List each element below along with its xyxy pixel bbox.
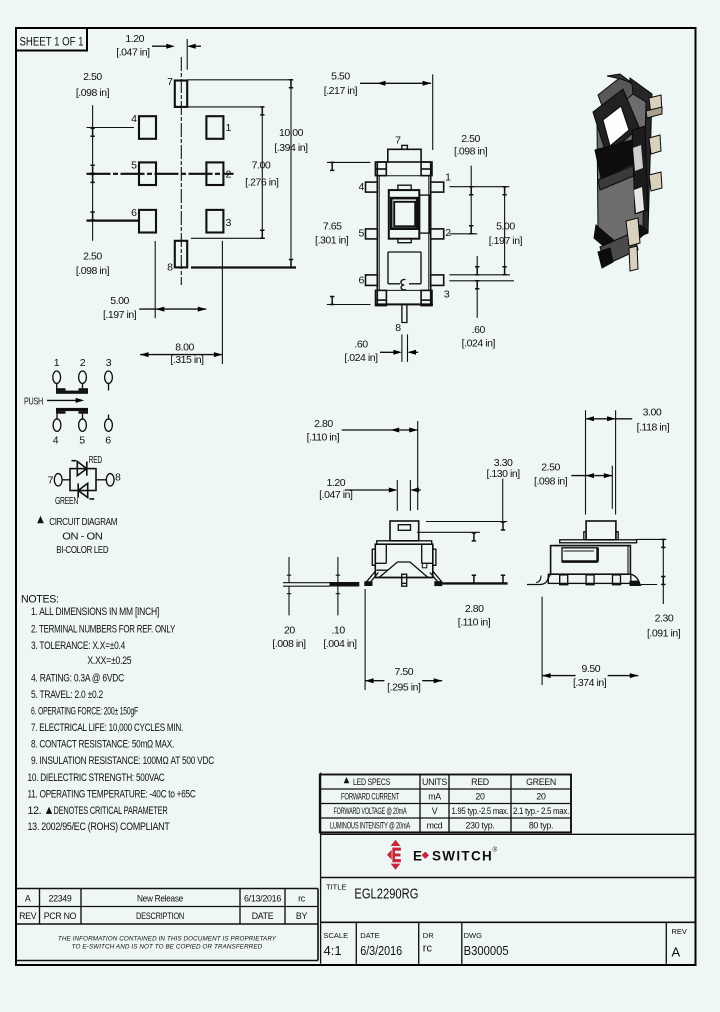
- svg-text:1.20: 1.20: [326, 477, 345, 489]
- svg-text:BY: BY: [296, 911, 308, 921]
- top view button mid square: [391, 198, 417, 229]
- circuit terminal 2: [79, 371, 87, 383]
- svg-text:[.047 in]: [.047 in]: [319, 489, 353, 501]
- svg-text:[.197 in]: [.197 in]: [489, 235, 523, 247]
- svg-text:[.098 in]: [.098 in]: [534, 476, 568, 488]
- side view button: [586, 521, 616, 540]
- svg-text:NOTES:: NOTES:: [21, 594, 59, 606]
- svg-text:BI-COLOR LED: BI-COLOR LED: [56, 544, 109, 556]
- svg-text:5.00: 5.00: [110, 295, 129, 307]
- svg-text:New Release: New Release: [137, 894, 183, 904]
- svg-text:rc: rc: [298, 894, 306, 904]
- front view reference line notch: [417, 531, 480, 533]
- top view button inner square: [394, 202, 415, 227]
- svg-text:SCALE: SCALE: [324, 931, 349, 940]
- svg-text:CIRCUIT DIAGRAM: CIRCUIT DIAGRAM: [49, 516, 117, 528]
- dimension 2.80 front top: [342, 421, 418, 510]
- svg-text:®: ®: [493, 846, 498, 854]
- front view left lead: [283, 571, 378, 587]
- svg-text:9. INSULATION RESISTANCE: 100M: 9. INSULATION RESISTANCE: 100MΩ AT 500 V…: [31, 755, 215, 767]
- svg-text:[.394 in]: [.394 in]: [274, 142, 308, 154]
- svg-text:[.110 in]: [.110 in]: [458, 617, 491, 629]
- svg-text:8.00: 8.00: [175, 341, 194, 353]
- svg-text:DENOTES CRITICAL PARAMETER: DENOTES CRITICAL PARAMETER: [54, 805, 168, 817]
- front view side steps: [375, 563, 433, 570]
- svg-text:7.50: 7.50: [394, 666, 413, 678]
- svg-text:2.50: 2.50: [83, 251, 102, 263]
- dimension 2.50 top view right: [449, 166, 509, 234]
- LED wires: [62, 479, 70, 481]
- dimension 7.65 top view: [327, 162, 371, 304]
- dimension 2.30 side: [637, 539, 667, 604]
- svg-text:[.008 in]: [.008 in]: [272, 638, 306, 650]
- front view side flanges: [372, 549, 375, 565]
- red diode: [72, 461, 87, 476]
- svg-text:[.197 in]: [.197 in]: [103, 309, 137, 321]
- svg-text:1: 1: [445, 172, 451, 184]
- svg-text:mcd: mcd: [427, 821, 443, 831]
- footprint pad 7: [175, 81, 187, 107]
- footprint vertical centerline: [180, 57, 182, 285]
- dimension 8.00 footprint: [140, 241, 222, 364]
- svg-text:[.301 in]: [.301 in]: [315, 235, 349, 247]
- LED specs table grid: [320, 775, 571, 833]
- svg-text:7.65: 7.65: [323, 220, 342, 232]
- svg-text:[.047 in]: [.047 in]: [116, 47, 150, 59]
- dimension 5.50 top view: [360, 74, 433, 150]
- dimension 3.00 side: [586, 410, 633, 514]
- top view corner pads: [375, 162, 432, 306]
- svg-text:5: 5: [79, 435, 85, 447]
- svg-text:GREEN: GREEN: [55, 495, 78, 507]
- svg-text:6/3/2016: 6/3/2016: [360, 943, 402, 958]
- svg-text:2: 2: [226, 168, 232, 180]
- svg-text:[.024 in]: [.024 in]: [462, 338, 496, 350]
- top view pin 7 tab: [402, 145, 408, 149]
- svg-text:8. CONTACT RESISTANCE: 50mΩ MA: 8. CONTACT RESISTANCE: 50mΩ MAX.: [31, 739, 174, 751]
- svg-text:ON - ON: ON - ON: [62, 530, 102, 542]
- svg-text:12.: 12.: [28, 805, 42, 817]
- svg-text:1.20: 1.20: [125, 33, 144, 45]
- svg-text:4: 4: [359, 181, 365, 193]
- footprint pad 8: [175, 241, 187, 268]
- front view reference line button top: [426, 521, 507, 523]
- svg-text:B300005: B300005: [464, 943, 509, 958]
- circuit caption: [37, 516, 44, 523]
- top view epsilon mark: [401, 279, 406, 289]
- side view cap: [560, 540, 637, 543]
- footprint pad 3: [206, 210, 223, 233]
- svg-text:7: 7: [167, 76, 173, 88]
- svg-text:[.091 in]: [.091 in]: [647, 628, 681, 640]
- svg-text:RED: RED: [89, 454, 103, 466]
- side view inner rect: [562, 548, 598, 562]
- svg-text:SWITCH: SWITCH: [432, 849, 493, 864]
- svg-text:RED: RED: [471, 777, 489, 787]
- top view pin 1: [431, 182, 444, 192]
- svg-text:6: 6: [131, 207, 137, 219]
- svg-text:1: 1: [54, 357, 60, 369]
- svg-text:[.374 in]: [.374 in]: [573, 677, 607, 689]
- svg-text:22349: 22349: [49, 894, 72, 904]
- circuit terminal 6: [105, 419, 113, 431]
- svg-text:7: 7: [395, 135, 401, 147]
- svg-text:DATE: DATE: [252, 911, 274, 921]
- svg-text:8: 8: [395, 322, 401, 334]
- svg-text:EGL2290RG: EGL2290RG: [354, 887, 418, 903]
- svg-text:2: 2: [445, 227, 451, 239]
- svg-text:THE INFORMATION CONTAINED IN T: THE INFORMATION CONTAINED IN THIS DOCUME…: [58, 936, 277, 943]
- footprint pad 5: [139, 162, 156, 185]
- svg-text:5. TRAVEL: 2.0 ±0.2: 5. TRAVEL: 2.0 ±0.2: [31, 689, 103, 701]
- svg-text:PCR NO: PCR NO: [44, 911, 77, 921]
- svg-text:5: 5: [131, 159, 137, 171]
- front view center tab: [402, 574, 407, 586]
- circuit terminal 4: [53, 419, 61, 431]
- svg-text:[.217 in]: [.217 in]: [324, 85, 358, 97]
- svg-text:UNITS: UNITS: [422, 777, 447, 787]
- svg-text:3: 3: [444, 289, 450, 301]
- svg-text:[.118 in]: [.118 in]: [637, 421, 670, 433]
- svg-text:GREEN: GREEN: [526, 777, 556, 787]
- circuit stems bottom: [57, 414, 109, 419]
- svg-text:2.30: 2.30: [655, 612, 674, 624]
- svg-text:8: 8: [167, 262, 173, 274]
- svg-text:[.130 in]: [.130 in]: [486, 468, 520, 480]
- dimension 2.80 front bottom: [472, 533, 476, 583]
- svg-text:[.315 in]: [.315 in]: [170, 354, 204, 366]
- svg-text:TO E-SWITCH AND IS NOT TO BE C: TO E-SWITCH AND IS NOT TO BE COPIED OR T…: [72, 944, 263, 951]
- svg-text:FORWARD CURRENT: FORWARD CURRENT: [341, 792, 400, 802]
- front view button notch: [398, 525, 410, 531]
- svg-text:2: 2: [80, 357, 86, 369]
- svg-text:5.00: 5.00: [496, 221, 515, 233]
- dimension 2.50 footprint upper: [90, 105, 94, 240]
- side view left lead hook: [527, 574, 551, 584]
- top view body outline: [375, 149, 433, 304]
- green diode: [78, 483, 94, 499]
- svg-text:10.00: 10.00: [279, 127, 304, 139]
- svg-text:[.295 in]: [.295 in]: [387, 682, 421, 694]
- circuit terminal 3: [105, 371, 113, 383]
- svg-text:LED SPECS: LED SPECS: [353, 777, 390, 787]
- svg-text:DR: DR: [423, 931, 434, 940]
- svg-text:FORWARD VOLTAGE @ 20mA: FORWARD VOLTAGE @ 20mA: [334, 806, 407, 816]
- footprint pad 4: [139, 116, 156, 139]
- top view pin 2: [431, 229, 444, 239]
- svg-text:3.00: 3.00: [643, 407, 662, 419]
- LED terminal 7: [54, 474, 62, 486]
- svg-text:1.95 typ.-2.5 max.: 1.95 typ.-2.5 max.: [452, 806, 509, 816]
- svg-text:.60: .60: [354, 339, 368, 351]
- dimension 10.00 footprint: [289, 80, 293, 268]
- svg-text:[.024 in]: [.024 in]: [344, 352, 378, 364]
- svg-text:E: E: [413, 849, 423, 864]
- top view pin 6: [366, 275, 378, 286]
- svg-text:REV: REV: [672, 927, 687, 936]
- circuit terminal 1: [53, 371, 61, 383]
- svg-text:4:1: 4:1: [324, 943, 342, 958]
- svg-text:[.098 in]: [.098 in]: [454, 146, 488, 158]
- svg-text:230 typ.: 230 typ.: [466, 821, 495, 831]
- footprint pad 1: [206, 116, 223, 139]
- svg-text:.60: .60: [472, 324, 486, 336]
- svg-text:5: 5: [359, 227, 365, 239]
- circuit movable contact bar upper: [56, 388, 88, 394]
- dimension 5.00 top view right: [502, 187, 506, 275]
- e-switch logo mark: [387, 840, 401, 870]
- top view pin 5: [366, 229, 378, 239]
- dimension 7.00 footprint: [260, 107, 264, 238]
- svg-text:20: 20: [284, 624, 295, 636]
- svg-text:2.50: 2.50: [461, 133, 480, 145]
- svg-text:13. 2002/95/EC (ROHS) COMPLIAN: 13. 2002/95/EC (ROHS) COMPLIANT: [28, 821, 171, 833]
- dimension .60 top view right: [449, 256, 514, 318]
- top view button outer: [389, 190, 420, 239]
- svg-text:2.50: 2.50: [83, 71, 102, 83]
- side view bottom band: [548, 574, 631, 583]
- front view button: [390, 521, 419, 541]
- sheet label box: [16, 28, 87, 51]
- dimension 2.50 side: [571, 466, 612, 509]
- top view pin 3: [431, 275, 444, 286]
- svg-text:4: 4: [53, 435, 59, 447]
- svg-text:3: 3: [106, 357, 112, 369]
- svg-text:11. OPERATING TEMPERATURE: -40: 11. OPERATING TEMPERATURE: -40C to +65C: [28, 788, 196, 800]
- footprint pad 6: [139, 210, 156, 233]
- title block frame lines: [321, 773, 696, 964]
- LED box: [70, 469, 96, 491]
- svg-text:[.098 in]: [.098 in]: [76, 87, 110, 99]
- top view button bottom tab: [398, 239, 411, 243]
- svg-text:7.00: 7.00: [252, 159, 271, 171]
- LED terminal 8: [106, 474, 114, 486]
- svg-text:[.110 in]: [.110 in]: [307, 432, 340, 444]
- svg-text:1: 1: [226, 122, 232, 134]
- svg-text:SHEET 1 OF 1: SHEET 1 OF 1: [20, 37, 84, 49]
- svg-text:DESCRIPTION: DESCRIPTION: [136, 911, 184, 921]
- svg-text:7: 7: [48, 475, 54, 487]
- svg-text:10. DIELECTRIC STRENGTH: 500V: 10. DIELECTRIC STRENGTH: 500VAC: [28, 772, 165, 784]
- dimension 2.50 footprint lower: [90, 174, 94, 220]
- front view body: [375, 544, 433, 577]
- footprint pad 2: [206, 162, 223, 185]
- top view pin 8 tab: [402, 304, 407, 322]
- dimension 7.50 front: [365, 589, 442, 690]
- dimension .20 pcb: [287, 557, 291, 615]
- svg-text:20: 20: [536, 792, 546, 802]
- front view right lead: [430, 571, 508, 587]
- svg-text:PUSH: PUSH: [24, 396, 43, 408]
- side view right lead: [631, 574, 640, 583]
- svg-text:[.098 in]: [.098 in]: [76, 265, 110, 277]
- svg-text:1. ALL DIMENSIONS IN MM [INCH]: 1. ALL DIMENSIONS IN MM [INCH]: [31, 606, 159, 618]
- svg-text:X.XX=±0.25: X.XX=±0.25: [87, 655, 131, 667]
- svg-text:3: 3: [226, 217, 232, 229]
- svg-text:LUMINOUS INTENSITY @ 20mA: LUMINOUS INTENSITY @ 20mA: [330, 821, 410, 831]
- side view body: [551, 546, 631, 575]
- footprint extension lines: [87, 80, 297, 268]
- svg-text:5.50: 5.50: [331, 70, 350, 82]
- front view actuator dome: [379, 562, 428, 578]
- svg-text:REV: REV: [19, 911, 37, 921]
- top view button right strip: [420, 195, 430, 233]
- top view pin 4: [366, 182, 378, 192]
- dimension 5.00 footprint: [139, 241, 206, 318]
- svg-text:DATE: DATE: [360, 931, 379, 940]
- revision table: [16, 889, 318, 961]
- circuit stems top: [57, 383, 109, 390]
- svg-text:6. OPERATING FORCE: 200± 150gF: 6. OPERATING FORCE: 200± 150gF: [31, 706, 139, 718]
- svg-text:20: 20: [475, 792, 485, 802]
- svg-text:[.004 in]: [.004 in]: [323, 638, 357, 650]
- dimension 1.20 footprint: [152, 39, 201, 70]
- dimension 3.30 front: [501, 479, 505, 584]
- svg-text:2.50: 2.50: [541, 462, 560, 474]
- svg-text:DWG: DWG: [464, 931, 482, 940]
- svg-text:2.80: 2.80: [465, 603, 484, 615]
- svg-text:8: 8: [115, 472, 121, 484]
- svg-text:80 typ.: 80 typ.: [529, 821, 553, 831]
- LED table header row: [344, 777, 350, 783]
- svg-text:mA: mA: [428, 792, 441, 802]
- front view cap: [377, 541, 432, 544]
- svg-text:TITLE: TITLE: [326, 883, 346, 892]
- circuit movable contact bar lower: [56, 408, 88, 414]
- dimension .10 pcb: [336, 557, 340, 615]
- svg-text:[.276 in]: [.276 in]: [245, 177, 279, 189]
- svg-text:rc: rc: [423, 943, 433, 955]
- svg-text:6: 6: [359, 275, 365, 287]
- svg-text:2.1 typ.- 2.5 max.: 2.1 typ.- 2.5 max.: [513, 806, 569, 816]
- footprint horizontal centerline: [87, 173, 234, 175]
- svg-text:3. TOLERANCE: X.X=±0.4: 3. TOLERANCE: X.X=±0.4: [31, 640, 125, 652]
- top view lower inner section: [388, 252, 421, 284]
- side view feet: [560, 575, 568, 585]
- 3D isometric switch rendering: [593, 74, 662, 271]
- front view inner verticals: [385, 544, 387, 563]
- svg-text:4. RATING: 0.3A @ 6VDC: 4. RATING: 0.3A @ 6VDC: [31, 673, 125, 685]
- svg-text:4: 4: [131, 113, 137, 125]
- dimension 9.50 side: [542, 597, 638, 685]
- svg-text:9.50: 9.50: [581, 663, 600, 675]
- svg-text:.10: .10: [331, 624, 345, 636]
- svg-text:V: V: [432, 806, 438, 816]
- svg-text:7. ELECTRICAL LIFE: 10,000 CYC: 7. ELECTRICAL LIFE: 10,000 CYCLES MIN.: [31, 722, 183, 734]
- svg-text:2.80: 2.80: [314, 418, 333, 430]
- svg-text:A: A: [672, 945, 681, 960]
- svg-text:2. TERMINAL NUMBERS FOR REF. O: 2. TERMINAL NUMBERS FOR REF. ONLY: [31, 623, 175, 635]
- dimension 1.20 front: [345, 480, 421, 511]
- dimension .60 top view bottom: [380, 334, 418, 362]
- top view button top tab: [398, 185, 411, 190]
- svg-text:A: A: [25, 894, 31, 904]
- svg-text:6: 6: [105, 435, 111, 447]
- circuit terminal 5: [79, 419, 87, 431]
- front view body bottom edge: [375, 577, 401, 579]
- svg-text:6/13/2016: 6/13/2016: [244, 894, 281, 904]
